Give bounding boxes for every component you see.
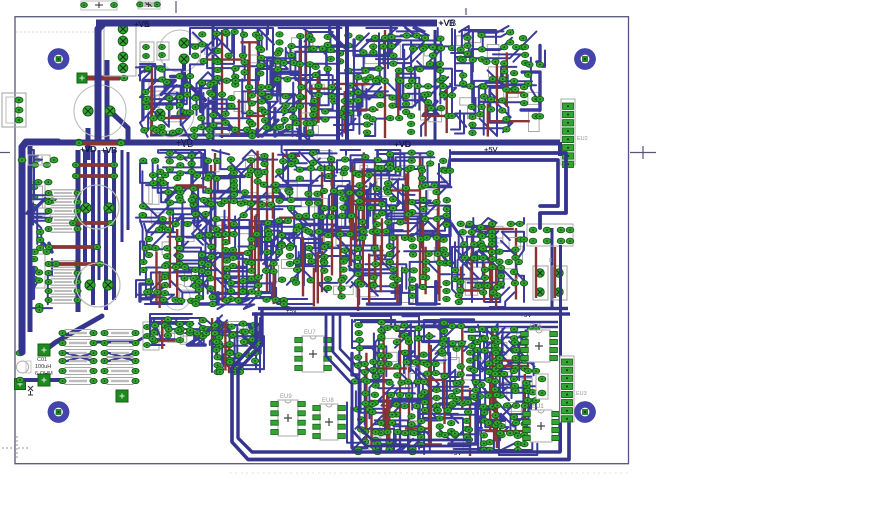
pad [431,183,438,188]
pad [355,90,362,95]
wire [98,23,130,142]
pad [296,176,303,181]
wire [327,214,367,235]
pad [281,108,288,113]
pad [484,283,491,288]
wire bottom-layer [487,103,489,136]
pad [166,159,173,164]
wire [220,150,260,169]
pad [498,423,505,428]
wire [240,28,267,50]
svg-text:100uH: 100uH [35,364,51,370]
pad [532,350,539,355]
wire [260,275,275,297]
pad [296,62,303,67]
component outline [356,284,376,297]
component outline [324,229,336,246]
pad [519,36,526,41]
pad [321,260,328,265]
pad [459,229,466,234]
wire bottom-layer [251,158,253,268]
pad [150,126,157,131]
component outline [468,107,480,119]
component outline [315,198,328,216]
pad [372,374,379,379]
pad [249,329,256,334]
pad [213,216,220,221]
pad [214,67,221,72]
wire [352,353,359,375]
svg-text:EU8: EU8 [322,398,334,404]
pad [516,221,523,226]
wire bottom-layer [309,87,342,89]
component outline [162,242,170,255]
pad [384,325,391,330]
wire [146,209,174,232]
wire [478,325,487,358]
pad [422,259,429,264]
wire bottom-layer [334,83,369,85]
pad [355,98,362,103]
pad [292,280,299,285]
pad [485,369,492,374]
svg-text:EU7: EU7 [304,330,316,336]
pad [432,370,439,375]
pad [244,259,251,264]
pad [214,327,221,332]
wire [481,330,495,352]
pad [160,297,167,302]
wire bottom-layer [228,201,230,245]
wire [375,193,391,234]
wire [385,403,392,434]
component outline [33,186,42,208]
pad [354,246,361,251]
pad [161,172,168,177]
pad [163,254,170,259]
wire bottom-layer [430,345,432,447]
wire [354,28,391,55]
wire [301,119,355,136]
pad [307,166,314,171]
pad [213,31,220,36]
pad [204,262,211,267]
pad [166,105,173,110]
wire [360,346,386,376]
pad [159,77,166,82]
wire bottom-layer [224,322,226,371]
pad [228,95,235,100]
pad [474,355,481,360]
pad [165,190,172,195]
pad [360,50,367,55]
pad [439,351,446,356]
wire [289,226,316,272]
pad [325,241,332,246]
pad [394,277,401,282]
pad [377,420,384,425]
wire [443,377,459,419]
wire [452,247,491,275]
pad [341,248,348,253]
pad [158,125,165,130]
pad [152,245,159,250]
+5V distribution bus [258,307,568,310]
pad [211,339,218,344]
wire [185,333,204,345]
pad [212,59,219,64]
pad [196,233,203,238]
pad [436,424,443,429]
pad [402,186,409,191]
pad [172,297,179,302]
pad [397,78,404,83]
component outline [424,48,437,56]
component outline [334,286,354,295]
wire group: bottom-layer vertical traces [221,30,223,138]
pad [144,66,151,71]
pad [436,416,443,421]
component outline [496,269,518,279]
component outline [234,92,245,112]
wire [327,111,372,124]
wire [309,176,336,218]
wire [366,28,397,35]
GND bottom bus [238,310,560,452]
pad [427,161,434,166]
wire [238,225,281,247]
pad [372,78,379,83]
wire [202,178,262,201]
pad [491,387,498,392]
pad [401,333,408,338]
pad [422,183,429,188]
pad [479,246,486,251]
pad [276,124,283,129]
pad [415,326,422,331]
wire [512,363,534,398]
pin header EU3 [560,356,574,422]
pad [226,342,233,347]
component outline [393,45,401,58]
pad [479,234,486,239]
pad [389,420,396,425]
pad [243,127,250,132]
pad [460,81,467,86]
wire [455,62,466,86]
component outline [479,89,489,100]
component outline [495,388,507,397]
pad [161,323,168,328]
wire [425,373,451,399]
pad [320,188,327,193]
pad [377,102,384,107]
pad [465,427,472,432]
wire [298,251,306,283]
wire [211,235,221,266]
wire [200,280,245,294]
power connector X1 [104,20,136,76]
pad [474,339,481,344]
pad [251,358,258,363]
pad [499,76,506,81]
pad [448,394,455,399]
pad [468,327,475,332]
wire [242,79,256,113]
pad [371,246,378,251]
pad [406,67,413,72]
pad [145,252,152,257]
pad [37,245,44,250]
pad [361,361,368,366]
wire [243,150,267,165]
pad [222,240,229,245]
pad [222,111,229,116]
pad [433,235,440,240]
component outline [152,321,164,340]
pad [407,165,414,170]
pad [355,263,362,268]
pad [315,92,322,97]
pad [491,335,498,340]
pad [521,60,528,65]
wire [373,185,403,224]
wire [365,401,394,429]
pad [425,251,432,256]
wire [182,185,198,223]
pad [521,441,528,446]
+5V distribution bus [258,307,568,310]
component outline [269,193,279,210]
wire [318,47,327,75]
pad [375,76,382,81]
pad [366,407,373,412]
pad [468,229,475,234]
wire [309,153,337,168]
pad [481,283,488,288]
pad [345,43,352,48]
pad [278,242,285,247]
pad [248,289,255,294]
pad [442,252,449,257]
wire [150,318,175,339]
wire [360,183,376,199]
wire bottom-layer [352,166,354,240]
mounting hole (585,59) [574,48,596,70]
wire bottom-layer [241,41,259,43]
pad [176,245,183,250]
pad [265,232,272,237]
pad [186,321,193,326]
wire [478,407,504,421]
pad [529,350,536,355]
pad [474,347,481,352]
pad [421,44,428,49]
pad [249,122,256,127]
wire bottom-layer [494,393,496,441]
pad [325,165,332,170]
pad [371,35,378,40]
wire [416,373,473,390]
wire [297,109,313,136]
pad [420,206,427,211]
pad [536,97,543,102]
wire [326,45,354,84]
pad [489,264,496,269]
pad [501,77,508,82]
wire [325,165,350,222]
pad [345,33,352,38]
pad [409,449,416,454]
wire [309,32,333,48]
pad [310,160,317,165]
pad [408,430,415,435]
component outline [184,269,191,286]
pad [159,224,166,229]
wire bottom-layer [498,359,516,361]
pad [276,48,283,53]
pad [369,117,376,122]
pad [437,45,444,50]
pad [356,191,363,196]
pad [219,322,226,327]
pad [448,403,455,408]
wire [455,71,500,87]
+VB top power bus [96,20,437,27]
pad [489,404,496,409]
pad [263,297,270,302]
pad [230,367,237,372]
wire [225,267,256,282]
pad [155,227,162,232]
pad [512,403,519,408]
pad [205,188,212,193]
pad [386,439,393,444]
pad [216,367,223,372]
pad [290,115,297,120]
pad [207,82,214,87]
pad [485,420,492,425]
wire [30,217,41,244]
pad [512,355,519,360]
pad [480,94,487,99]
pad [372,429,379,434]
wire [256,61,288,94]
pad [202,211,209,216]
pad [468,335,475,340]
pad [158,116,165,121]
wire [502,232,524,249]
pad [468,343,475,348]
pad [161,274,168,279]
pad [280,301,287,306]
pad [45,180,52,185]
pad [371,400,378,405]
pad [213,347,220,352]
pad [181,264,188,269]
wire [261,223,290,261]
wire [177,260,208,293]
wire [340,241,379,276]
wire [423,381,462,418]
wire [330,28,345,48]
pad [491,348,498,353]
pad [492,59,499,64]
pad [192,96,199,101]
component outline [308,237,324,250]
wire [440,152,450,185]
component outline [497,328,517,338]
wire [352,341,385,381]
pad [216,369,223,374]
pad [327,157,334,162]
wire bottom-layer [489,226,491,297]
pad [258,91,265,96]
pad [37,229,44,234]
wire [280,210,310,246]
pad [485,377,492,382]
pad [383,186,390,191]
wire bottom-layer [437,187,439,295]
pad [230,222,237,227]
pad [363,114,370,119]
pad [341,114,348,119]
component outline [369,443,391,450]
pad [440,237,447,242]
component outline [151,213,169,224]
pad [248,101,255,106]
pad [525,335,532,340]
wire [495,349,510,364]
pad [378,328,385,333]
pad [373,186,380,191]
pad [510,368,517,373]
component outline [409,421,421,439]
pad [140,158,147,163]
wire [480,225,510,251]
component outline [465,31,481,43]
pad [174,175,181,180]
wire [295,52,336,80]
pad [499,98,506,103]
component outline [333,193,355,204]
pad [273,125,280,130]
pad [409,285,416,290]
pad [214,369,221,374]
pad [345,68,352,73]
pad [48,198,55,203]
wire bottom-layer [238,99,240,136]
pad [207,201,214,206]
pad [242,339,249,344]
component outline [167,329,183,342]
pad [408,422,415,427]
wire [356,391,398,409]
component outline [342,211,354,228]
pad [398,380,405,385]
pad [386,380,393,385]
wire [377,150,408,161]
pad [278,243,285,248]
wire [473,270,517,287]
pad [492,350,499,355]
pad [308,46,315,51]
pad [507,40,514,45]
pad [247,168,254,173]
wire [414,393,436,412]
wire [455,30,473,57]
pad [287,243,294,248]
